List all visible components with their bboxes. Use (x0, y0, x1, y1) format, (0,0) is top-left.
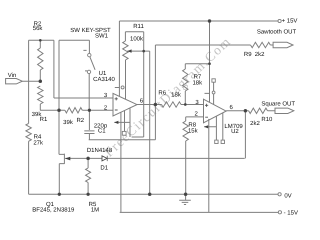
svg-text:1M: 1M (91, 207, 99, 214)
svg-text:R1: R1 (40, 116, 48, 123)
svg-text:+ 15V: + 15V (282, 17, 298, 24)
svg-text:18k: 18k (171, 92, 182, 99)
svg-text:C1: C1 (98, 128, 106, 135)
svg-text:R2: R2 (76, 117, 84, 124)
svg-text:18k: 18k (192, 80, 203, 87)
svg-text:2k2: 2k2 (255, 51, 265, 58)
svg-text:R7: R7 (194, 74, 202, 81)
svg-text:SW1: SW1 (95, 33, 109, 40)
svg-text:Square OUT: Square OUT (261, 100, 295, 107)
svg-text:Vin: Vin (8, 72, 17, 79)
svg-text:R4: R4 (34, 133, 42, 140)
svg-text:27k: 27k (33, 140, 44, 147)
svg-text:R11: R11 (133, 23, 144, 30)
svg-text:2k2: 2k2 (250, 120, 260, 127)
svg-text:Sawtooth OUT: Sawtooth OUT (257, 29, 297, 36)
svg-text:BF245, 2N3819: BF245, 2N3819 (32, 207, 75, 214)
svg-text:15k: 15k (188, 127, 199, 134)
svg-text:R6: R6 (158, 90, 166, 97)
svg-text:D1: D1 (100, 165, 108, 172)
svg-text:39k: 39k (63, 119, 74, 126)
svg-text:R10: R10 (261, 116, 273, 123)
svg-text:U2: U2 (231, 128, 239, 135)
svg-text:R9: R9 (244, 51, 252, 58)
svg-text:CA3140: CA3140 (93, 76, 115, 83)
svg-text:U1: U1 (99, 70, 107, 77)
svg-text:0V: 0V (284, 192, 291, 199)
svg-text:- 15V: - 15V (284, 209, 298, 216)
svg-text:D1N4148: D1N4148 (87, 147, 113, 154)
svg-text:56k: 56k (33, 25, 44, 32)
svg-text:100k: 100k (130, 35, 144, 42)
